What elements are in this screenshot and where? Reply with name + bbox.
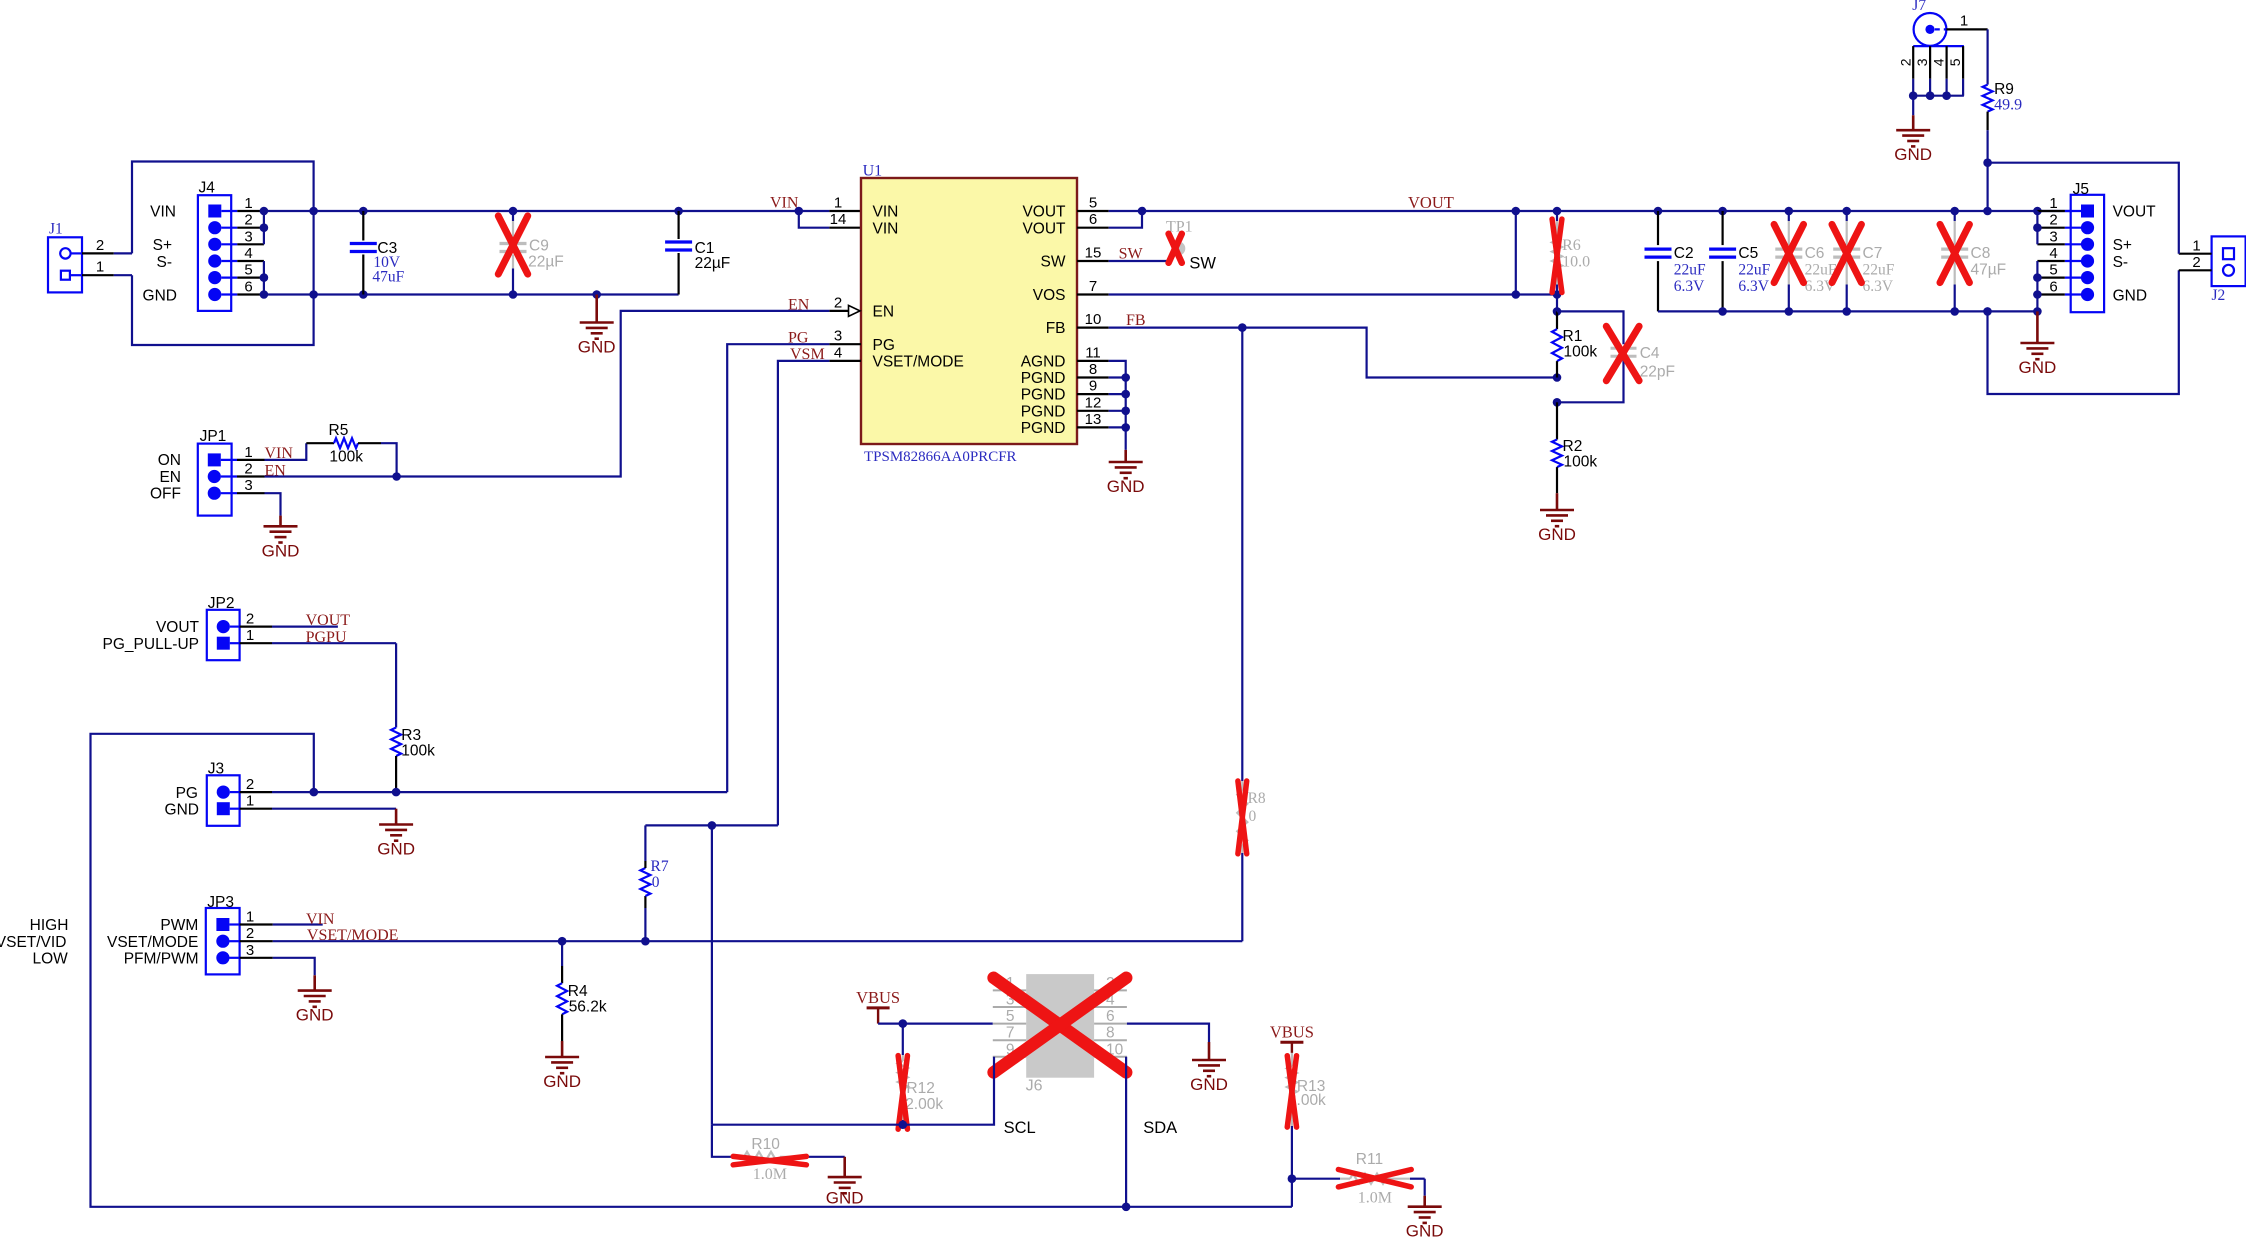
ground R2 xyxy=(1556,493,1559,510)
svg-text:14: 14 xyxy=(830,211,847,228)
power symbol VBUS xyxy=(867,1006,890,1009)
capacitor C2 22uF xyxy=(1657,211,1659,245)
capacitor C1 xyxy=(677,211,679,239)
svg-text:6.3V: 6.3V xyxy=(1738,278,1769,295)
resistor R6 10.0 (DNP) xyxy=(1556,211,1558,221)
resistor R9 49.9 xyxy=(1986,29,1988,84)
ground JP1 xyxy=(279,516,282,527)
svg-text:22µF: 22µF xyxy=(695,255,731,272)
svg-text:C9: C9 xyxy=(529,237,549,254)
svg-text:1: 1 xyxy=(2192,238,2200,255)
svg-text:2: 2 xyxy=(246,925,254,942)
wire GND return loop to J2 xyxy=(1988,270,2179,394)
svg-text:U1: U1 xyxy=(863,163,883,180)
resistor R8 0 (DNP) on FB to VSET xyxy=(1241,328,1243,781)
wire VOUT rail xyxy=(1109,210,2071,212)
svg-text:6: 6 xyxy=(2049,279,2057,296)
svg-text:GND: GND xyxy=(1406,1222,1444,1237)
svg-text:3: 3 xyxy=(244,477,252,494)
svg-text:VOS: VOS xyxy=(1033,287,1066,304)
test point TP1 (DNP) xyxy=(1171,242,1185,256)
resistor R5 100k xyxy=(265,443,307,460)
svg-text:VIN: VIN xyxy=(770,195,799,212)
svg-text:FB: FB xyxy=(1046,320,1066,337)
svg-text:R9: R9 xyxy=(1994,81,2014,98)
svg-text:S-: S- xyxy=(2113,254,2129,271)
svg-text:8: 8 xyxy=(1089,361,1097,378)
svg-text:FB: FB xyxy=(1126,312,1146,329)
svg-text:R1: R1 xyxy=(1563,328,1583,345)
J5 pin stubs and numbers xyxy=(2065,210,2081,212)
svg-text:R2: R2 xyxy=(1563,438,1583,455)
svg-text:OFF: OFF xyxy=(150,486,181,503)
resistor R10 1.0M (DNP) SCL to ground xyxy=(712,1125,734,1157)
connector J6 I2C header (DNP) xyxy=(1026,974,1094,1078)
svg-text:ON: ON xyxy=(158,452,181,469)
svg-text:GND: GND xyxy=(296,1006,334,1025)
svg-text:1: 1 xyxy=(244,195,252,212)
svg-text:PG: PG xyxy=(788,330,809,347)
svg-text:6: 6 xyxy=(1089,211,1097,228)
wire SCL from J6 pin9 xyxy=(712,1057,994,1125)
ground input rail xyxy=(595,295,598,323)
svg-text:R10: R10 xyxy=(751,1136,780,1153)
svg-text:C7: C7 xyxy=(1863,245,1883,262)
svg-text:5: 5 xyxy=(1089,195,1097,212)
svg-text:VOUT: VOUT xyxy=(1022,220,1066,237)
svg-text:EN: EN xyxy=(788,297,810,314)
svg-text:15: 15 xyxy=(1085,245,1102,262)
U1 PG pin stub xyxy=(829,343,861,345)
svg-text:100k: 100k xyxy=(1564,344,1598,361)
ground R11 xyxy=(1424,1179,1426,1196)
svg-text:PWM: PWM xyxy=(160,917,198,934)
connector JP2 PG pull-up jumper xyxy=(207,610,240,660)
wire VSM horizontal segment xyxy=(645,824,778,826)
svg-text:2.00k: 2.00k xyxy=(905,1096,943,1113)
svg-text:6.3V: 6.3V xyxy=(1674,278,1705,295)
svg-text:1: 1 xyxy=(246,793,254,810)
wire J4 pins 1-3 tie xyxy=(263,211,265,244)
svg-text:J3: J3 xyxy=(208,761,224,778)
wire R13 to bottom rail xyxy=(1291,1179,1293,1207)
wire input GND rail xyxy=(264,293,679,295)
svg-text:C4: C4 xyxy=(1640,345,1660,362)
svg-text:8: 8 xyxy=(1106,1025,1115,1042)
svg-text:4: 4 xyxy=(244,245,252,262)
svg-text:22µF: 22µF xyxy=(528,254,564,271)
wire SCL drop from VSM node xyxy=(711,825,713,1124)
svg-text:VIN: VIN xyxy=(306,911,335,928)
svg-text:R6: R6 xyxy=(1562,237,1581,254)
svg-text:4: 4 xyxy=(2049,245,2057,262)
svg-text:7: 7 xyxy=(1006,1025,1015,1042)
svg-text:3: 3 xyxy=(246,942,254,959)
wire VSM net vertical from U1 pin4 xyxy=(778,361,829,826)
svg-text:VBUS: VBUS xyxy=(856,988,900,1007)
svg-text:0: 0 xyxy=(1249,808,1257,825)
U1 EN pin stub with input arrow xyxy=(829,310,848,312)
svg-text:J6: J6 xyxy=(1026,1078,1043,1095)
connector J7 SMA xyxy=(1914,13,1947,46)
svg-text:47uF: 47uF xyxy=(372,268,404,285)
resistor R4 56.2k xyxy=(561,941,563,966)
capacitor C7 22uF (DNP) xyxy=(1846,211,1848,221)
svg-text:SW: SW xyxy=(1041,254,1066,271)
svg-text:VOUT: VOUT xyxy=(156,619,200,636)
svg-text:SW: SW xyxy=(1119,246,1144,263)
resistor R2 100k xyxy=(1556,402,1558,439)
svg-text:JP3: JP3 xyxy=(207,894,234,911)
svg-text:4: 4 xyxy=(1931,58,1947,66)
svg-text:2: 2 xyxy=(244,461,252,478)
svg-text:J4: J4 xyxy=(199,180,216,197)
svg-text:GND: GND xyxy=(1538,525,1576,544)
svg-text:VOUT: VOUT xyxy=(1022,204,1066,221)
connector JP1 enable jumper xyxy=(198,444,232,516)
svg-text:R4: R4 xyxy=(568,983,588,1000)
wire PG net vertical from U1 pin3 xyxy=(727,344,829,792)
svg-text:10: 10 xyxy=(1085,311,1102,328)
svg-text:5: 5 xyxy=(2049,262,2057,279)
svg-text:S+: S+ xyxy=(2113,237,2132,254)
svg-text:C8: C8 xyxy=(1971,245,1991,262)
svg-text:R8: R8 xyxy=(1248,790,1266,807)
svg-text:VSET/MODE: VSET/MODE xyxy=(873,354,964,371)
svg-text:1: 1 xyxy=(1960,13,1968,30)
svg-text:22uF: 22uF xyxy=(1674,262,1706,279)
JP2 pin2 wire VOUT stub xyxy=(230,625,240,627)
capacitor C9 (DNP) xyxy=(512,211,514,221)
svg-text:GND: GND xyxy=(165,802,199,819)
svg-text:R12: R12 xyxy=(906,1080,934,1097)
J4 pin stubs and numbers xyxy=(221,210,237,212)
svg-text:R11: R11 xyxy=(1356,1151,1383,1168)
wire J5 pins 4-6 tie to GND rail xyxy=(2036,261,2038,311)
svg-text:13: 13 xyxy=(1085,411,1102,428)
svg-text:7: 7 xyxy=(1089,278,1097,295)
wire kelvin sense loop (S+ top / S- bottom) xyxy=(132,162,314,346)
svg-text:C5: C5 xyxy=(1738,245,1758,262)
svg-text:VIN: VIN xyxy=(150,204,176,221)
svg-text:EN: EN xyxy=(873,304,895,321)
svg-text:22pF: 22pF xyxy=(1640,364,1675,381)
wire PG loop to bottom rail xyxy=(91,734,1292,1207)
svg-text:EN: EN xyxy=(159,469,181,486)
connector J2 output terminal block xyxy=(2212,236,2246,286)
svg-text:GND: GND xyxy=(578,338,616,357)
svg-text:PGND: PGND xyxy=(1021,420,1066,437)
svg-text:VSET/MODE: VSET/MODE xyxy=(307,927,399,944)
svg-text:PGND: PGND xyxy=(1021,403,1066,420)
wire J5 pins 1-3 tie xyxy=(2036,211,2038,244)
J3 pin1 wire to ground xyxy=(230,808,240,810)
svg-text:PFM/PWM: PFM/PWM xyxy=(124,951,199,968)
svg-text:PG: PG xyxy=(176,785,198,802)
svg-text:3: 3 xyxy=(834,328,842,345)
ground J7 xyxy=(1912,115,1915,130)
U1 right pin stubs xyxy=(1077,210,1109,212)
svg-text:GND: GND xyxy=(826,1189,864,1208)
resistor R12 2.00k (DNP) xyxy=(902,1024,904,1055)
wire J7 shield to ground xyxy=(1912,96,1914,116)
svg-text:2: 2 xyxy=(246,776,254,793)
ground R10 xyxy=(843,1157,846,1177)
JP2 pin1 wire PGPU xyxy=(230,642,240,644)
svg-text:LOW: LOW xyxy=(32,951,68,968)
ground J6 pin6 xyxy=(1208,1042,1211,1060)
svg-text:VOUT: VOUT xyxy=(306,612,351,629)
capacitor C6 22uF (DNP) xyxy=(1788,211,1790,221)
U1 VSET/MODE pin stub xyxy=(829,360,861,362)
ground J3 xyxy=(395,809,398,825)
resistor R7 0 xyxy=(644,908,646,941)
svg-text:6: 6 xyxy=(1106,1008,1115,1025)
svg-text:10.0: 10.0 xyxy=(1562,254,1590,271)
svg-text:56.2k: 56.2k xyxy=(569,999,607,1016)
svg-text:S+: S+ xyxy=(153,237,172,254)
svg-text:0: 0 xyxy=(652,874,660,891)
capacitor C8 47uF (DNP) xyxy=(1954,211,1956,221)
resistor R11 1.0M (DNP) to ground xyxy=(1292,1178,1340,1180)
svg-text:SCL: SCL xyxy=(1004,1119,1036,1137)
svg-text:100k: 100k xyxy=(401,743,435,760)
svg-text:1: 1 xyxy=(244,444,252,461)
svg-text:PGND: PGND xyxy=(1021,370,1066,387)
svg-text:5: 5 xyxy=(244,262,252,279)
power symbol VBUS xyxy=(1280,1041,1303,1044)
svg-text:22uF: 22uF xyxy=(1863,262,1895,279)
wire J1 pin1 to sense loop xyxy=(70,274,82,276)
wire EN net from JP1 to U1 xyxy=(265,311,830,477)
svg-text:GND: GND xyxy=(1107,477,1145,496)
wire output GND rail xyxy=(1658,310,2037,312)
wire VOUT pin6 jog xyxy=(1109,211,1142,228)
svg-text:R7: R7 xyxy=(651,858,669,875)
svg-text:GND: GND xyxy=(377,840,415,859)
svg-text:1.0M: 1.0M xyxy=(1358,1190,1392,1207)
connector J5 output header xyxy=(2071,195,2104,312)
svg-text:1: 1 xyxy=(246,909,254,926)
J7 pin1 wire xyxy=(1946,28,1987,30)
wire VBUS to J6 pin5 xyxy=(878,1022,993,1024)
wire J7/R9 node to J2 pin1 xyxy=(1988,163,2179,254)
svg-text:R5: R5 xyxy=(329,422,349,439)
svg-text:VIN: VIN xyxy=(873,204,899,221)
svg-text:S-: S- xyxy=(157,254,173,271)
svg-text:11: 11 xyxy=(1085,344,1101,361)
wire FB net xyxy=(1109,328,1557,378)
wire VOUT-VOS tie xyxy=(1515,211,1517,295)
svg-text:3: 3 xyxy=(2049,228,2057,245)
svg-text:2: 2 xyxy=(246,611,254,628)
svg-text:SDA: SDA xyxy=(1143,1119,1177,1137)
J2 pin1 wire xyxy=(2179,253,2212,255)
svg-text:VSM: VSM xyxy=(790,346,825,363)
svg-text:GND: GND xyxy=(1190,1075,1228,1094)
svg-text:PGND: PGND xyxy=(1021,387,1066,404)
svg-text:J5: J5 xyxy=(2073,181,2089,198)
svg-text:C2: C2 xyxy=(1674,245,1694,262)
svg-text:5: 5 xyxy=(1947,58,1963,66)
svg-text:AGND: AGND xyxy=(1021,354,1066,371)
svg-text:GND: GND xyxy=(262,541,300,560)
svg-text:2: 2 xyxy=(244,212,252,229)
svg-text:J1: J1 xyxy=(49,221,63,238)
capacitor C5 22uF xyxy=(1721,211,1723,245)
wire VIN pin14 jog xyxy=(799,211,830,228)
wire VIN rail xyxy=(264,210,829,212)
svg-text:2: 2 xyxy=(96,237,104,254)
resistor R1 100k xyxy=(1556,311,1558,329)
wire J4 pins 4-6 tie xyxy=(263,261,265,295)
wire SDA from J6 pin10 xyxy=(1125,1057,1127,1207)
svg-text:GND: GND xyxy=(543,1072,581,1091)
resistor R3 100k xyxy=(395,643,397,727)
svg-text:HIGH: HIGH xyxy=(30,917,69,934)
svg-text:VOUT: VOUT xyxy=(2113,204,2157,221)
svg-text:GND: GND xyxy=(1894,145,1932,164)
svg-text:R3: R3 xyxy=(401,727,421,744)
svg-text:100k: 100k xyxy=(329,449,363,466)
J2 pin2 wire xyxy=(2179,269,2212,271)
wire VOS line xyxy=(1109,293,1557,295)
op-amp U1 TPSM82866AA0PRCFR power module xyxy=(861,178,1077,444)
capacitor C3 xyxy=(362,211,364,241)
ground JP3 xyxy=(313,975,316,990)
resistor R13 2.00k (DNP) xyxy=(1291,1053,1293,1066)
wire SW net with test point xyxy=(1109,260,1172,262)
connector JP3 mode jumper xyxy=(206,908,240,974)
svg-text:3: 3 xyxy=(244,228,252,245)
svg-text:12: 12 xyxy=(1085,394,1102,411)
wire J1 pin2 to sense loop xyxy=(71,252,82,254)
wire J6 pin6 to ground xyxy=(1127,1024,1209,1042)
svg-text:J7: J7 xyxy=(1912,0,1926,14)
svg-text:TPSM82866AA0PRCFR: TPSM82866AA0PRCFR xyxy=(864,449,1017,465)
svg-text:PG_PULL-UP: PG_PULL-UP xyxy=(103,636,199,653)
svg-text:6: 6 xyxy=(244,279,252,296)
svg-text:J2: J2 xyxy=(2212,287,2226,304)
svg-text:VIN: VIN xyxy=(873,220,899,237)
connector J1 (input terminal block) xyxy=(48,237,82,292)
svg-text:GND: GND xyxy=(143,287,177,304)
svg-text:SW: SW xyxy=(1189,254,1216,272)
svg-text:3: 3 xyxy=(1914,58,1930,66)
svg-text:22uF: 22uF xyxy=(1738,262,1770,279)
ground R4 xyxy=(561,1041,564,1057)
svg-text:49.9: 49.9 xyxy=(1994,97,2022,114)
svg-text:JP1: JP1 xyxy=(200,428,227,445)
svg-text:2: 2 xyxy=(834,294,842,311)
svg-text:5: 5 xyxy=(1006,1008,1015,1025)
wire JP1 pin3 to ground xyxy=(265,493,281,515)
JP3 pin1 VIN stub xyxy=(273,923,323,925)
svg-text:GND: GND xyxy=(2113,287,2147,304)
svg-text:1: 1 xyxy=(2049,195,2057,212)
wire U1 AGND/PGND tie to ground xyxy=(1109,361,1126,450)
svg-text:VSET/VID: VSET/VID xyxy=(0,934,66,951)
svg-text:2: 2 xyxy=(1897,58,1913,66)
svg-text:2: 2 xyxy=(2192,254,2200,271)
svg-text:1: 1 xyxy=(246,627,254,644)
svg-text:4: 4 xyxy=(834,344,842,361)
svg-text:C6: C6 xyxy=(1805,245,1825,262)
svg-text:GND: GND xyxy=(2019,358,2057,377)
svg-text:VSET/MODE: VSET/MODE xyxy=(107,934,198,951)
J7 shield pins xyxy=(1913,45,1964,47)
wire VSET/MODE line xyxy=(273,940,1243,942)
connector J3 PG header xyxy=(207,775,240,826)
svg-text:6.3V: 6.3V xyxy=(1863,278,1894,295)
svg-text:VBUS: VBUS xyxy=(1270,1022,1314,1041)
svg-text:PG: PG xyxy=(873,337,895,354)
connector J4 (input header) xyxy=(198,195,231,311)
svg-text:47µF: 47µF xyxy=(1971,262,2007,279)
svg-text:9: 9 xyxy=(1089,378,1097,395)
svg-text:2: 2 xyxy=(2049,212,2057,229)
svg-text:1: 1 xyxy=(96,259,104,276)
svg-text:1.0M: 1.0M xyxy=(753,1166,787,1183)
svg-text:1: 1 xyxy=(834,195,842,212)
ground U1 PGND xyxy=(1124,450,1127,462)
svg-text:PGPU: PGPU xyxy=(306,629,347,646)
J3 pin2 wire PG net xyxy=(230,791,240,793)
svg-text:100k: 100k xyxy=(1564,454,1598,471)
capacitor C4 22pF (DNP) parallel loop xyxy=(1557,311,1624,344)
JP3 pin3 wire to ground xyxy=(273,958,315,976)
svg-text:EN: EN xyxy=(265,462,287,479)
svg-text:VOUT: VOUT xyxy=(1408,193,1454,212)
svg-text:JP2: JP2 xyxy=(208,595,235,612)
ground J5 xyxy=(2036,311,2039,343)
wire R6 bottom to R1 node xyxy=(1556,295,1558,312)
